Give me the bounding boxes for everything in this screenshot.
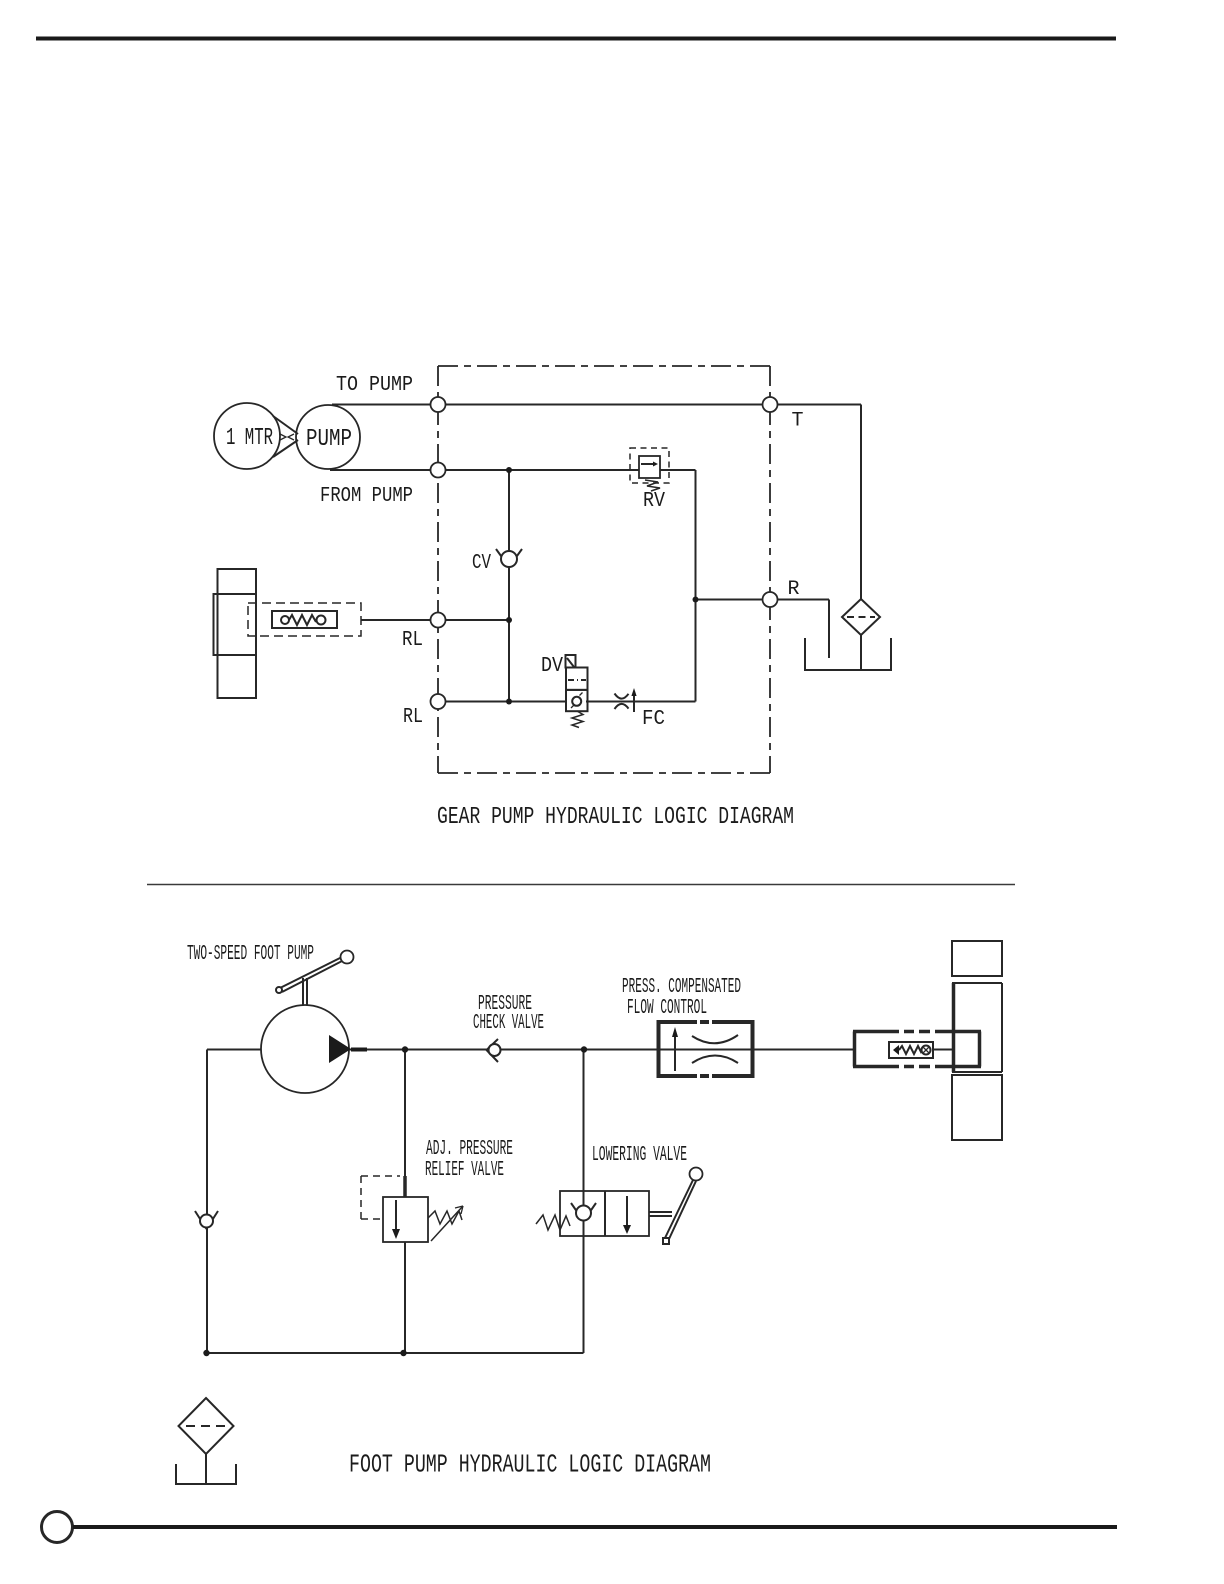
svg-text:TO PUMP: TO PUMP (336, 373, 413, 397)
svg-text:FLOW CONTROL: FLOW CONTROL (627, 997, 707, 1020)
svg-text:RL: RL (402, 628, 423, 652)
svg-text:1 MTR: 1 MTR (226, 425, 273, 452)
svg-text:CV: CV (472, 551, 491, 575)
svg-text:RV: RV (643, 489, 665, 513)
svg-text:PRESS. COMPENSATED: PRESS. COMPENSATED (622, 976, 741, 999)
svg-text:GEAR PUMP HYDRAULIC LOGIC DIAG: GEAR PUMP HYDRAULIC LOGIC DIAGRAM (437, 804, 794, 831)
svg-text:T: T (792, 410, 804, 433)
svg-text:RELIEF VALVE: RELIEF VALVE (425, 1159, 504, 1182)
svg-text:RL: RL (403, 705, 423, 729)
svg-text:DV: DV (541, 654, 563, 678)
svg-text:FC: FC (642, 707, 665, 731)
svg-text:CHECK VALVE: CHECK VALVE (473, 1012, 544, 1035)
svg-text:R: R (788, 578, 800, 601)
svg-text:FOOT PUMP HYDRAULIC LOGIC DIAG: FOOT PUMP HYDRAULIC LOGIC DIAGRAM (349, 1451, 711, 1480)
svg-text:ADJ. PRESSURE: ADJ. PRESSURE (426, 1138, 513, 1161)
svg-text:PUMP: PUMP (306, 426, 352, 453)
svg-text:FROM PUMP: FROM PUMP (320, 484, 413, 508)
svg-text:LOWERING VALVE: LOWERING VALVE (592, 1144, 687, 1167)
svg-text:TWO-SPEED FOOT PUMP: TWO-SPEED FOOT PUMP (187, 943, 314, 966)
